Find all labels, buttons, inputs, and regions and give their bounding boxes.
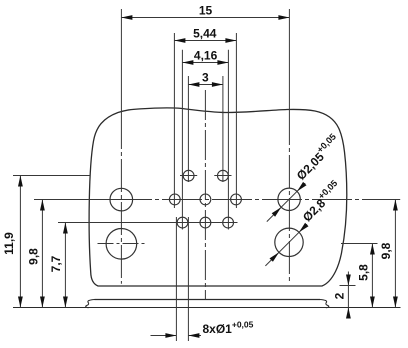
- dia 2,05 dimension line: [267, 183, 305, 221]
- small hole r3b: [200, 217, 211, 228]
- dim 3 line: [188, 84, 223, 86]
- svg-text:5,8: 5,8: [357, 264, 371, 281]
- foot top line: [95, 299, 321, 301]
- svg-text:2: 2: [333, 292, 347, 299]
- left ext line row3 / 7,7: [58, 222, 238, 224]
- right ext line 2 level: [340, 285, 356, 287]
- small hole r1b: [218, 170, 229, 181]
- hole UL big: [110, 188, 133, 211]
- small hole r2c: [231, 194, 242, 205]
- dim 5,44 ext lines: [174, 33, 236, 208]
- dim 4,16 line: [182, 62, 228, 64]
- hole LL centerline horizontal: [98, 243, 148, 245]
- foot bottom line / baseline: [13, 307, 401, 309]
- small hole r3a: [177, 217, 188, 228]
- dim 5,8 line: [371, 244, 373, 308]
- hole LR big: [275, 228, 303, 256]
- hole UR big: [278, 188, 300, 210]
- svg-text:9,8: 9,8: [379, 242, 393, 259]
- hole LL big: [106, 229, 137, 260]
- svg-text:11,9: 11,9: [2, 232, 16, 255]
- svg-text:15: 15: [199, 3, 213, 17]
- small hole r2b: [200, 194, 211, 205]
- dim 2 line with outside arrows: [347, 272, 349, 318]
- left ext line row1: [13, 175, 90, 177]
- small hole r3c: [223, 217, 234, 228]
- foot right S-cap: [320, 300, 329, 308]
- 8x dia1 ext lines: [176, 217, 188, 341]
- right ext line 5,8 level: [341, 243, 378, 245]
- dim 5,44 line: [174, 40, 236, 42]
- 8x dia1 dim line right: [188, 335, 201, 337]
- vertical centerline right hole column: [288, 9, 290, 284]
- center tick row1 right: [214, 175, 231, 177]
- dim 3 ext lines: [188, 76, 223, 182]
- svg-text:7,7: 7,7: [49, 255, 63, 272]
- part body outline: [89, 108, 347, 286]
- vertical centerline left hole column: [120, 9, 122, 284]
- dim 9,8 right line: [394, 200, 396, 308]
- 8x dia1 dim line left: [151, 335, 177, 337]
- svg-text:9,8: 9,8: [27, 248, 41, 265]
- dia 2,8 dimension line: [265, 224, 307, 266]
- svg-text:4,16: 4,16: [194, 48, 218, 62]
- foot left S-cap: [86, 300, 95, 308]
- small hole r1a: [183, 170, 194, 181]
- svg-text:8xØ1+0,05: 8xØ1+0,05: [203, 320, 254, 337]
- dim 11,9 line: [19, 176, 21, 308]
- svg-text:Ø2,05+0,05: Ø2,05+0,05: [292, 132, 343, 183]
- dim 15 line: [121, 17, 289, 19]
- dim 9,8 left line: [41, 200, 43, 308]
- dim 4,16 ext lines: [182, 50, 228, 230]
- svg-text:5,44: 5,44: [193, 26, 217, 40]
- center tick row1 left: [180, 175, 197, 177]
- dim 7,7 line: [64, 223, 66, 308]
- long horizontal centerline row2: [34, 199, 112, 201]
- main vertical centerline: [204, 90, 206, 300]
- svg-text:3: 3: [202, 70, 209, 84]
- small hole r2a: [169, 194, 180, 205]
